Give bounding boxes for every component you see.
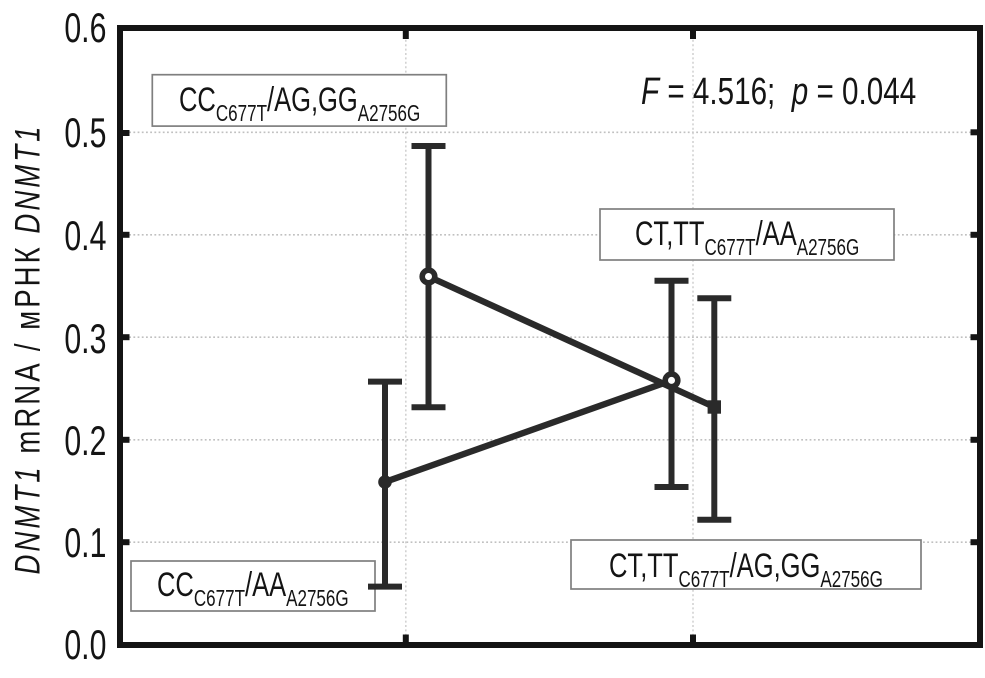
error bar series AA point CC (vertical) — [382, 382, 388, 587]
error bar cap top CT,TT/AG,GG — [697, 295, 731, 301]
marker filled square CT,TT/AG,GG — [708, 400, 721, 413]
right tick 0.2 — [971, 437, 978, 443]
bottom tick category 1 — [403, 635, 409, 643]
label box CC/AA — [131, 561, 375, 611]
right tick 0.3 — [971, 334, 978, 340]
label text CT,TT/AG,GG — [609, 549, 979, 584]
error bar cap top CC/AA — [368, 379, 402, 385]
y tick label 0.6 — [64, 7, 106, 49]
vertical gridline category 2 — [692, 31, 694, 642]
left tick 0.1 — [123, 539, 130, 545]
left tick 0.2 — [123, 437, 130, 443]
marker open circle CT,TT/AA — [665, 374, 678, 387]
error bar cap bottom CT,TT/AA — [655, 484, 689, 490]
marker filled circle CC/AA — [378, 475, 392, 489]
left tick 0.3 — [123, 334, 130, 340]
error bar cap top CC/AG,GG — [412, 143, 446, 149]
horizontal gridline 0.2 — [125, 439, 977, 441]
label text CT,TT/AA — [635, 217, 938, 252]
right tick 0.4 — [971, 232, 978, 238]
bottom tick category 2 — [690, 635, 696, 643]
y axis title DNMT1 mRNA / mRNK DNMT1 — [27, 348, 29, 350]
error bar series AA point CT,TT (vertical) — [669, 281, 675, 487]
y tick label 0.2 — [64, 420, 106, 462]
error bar cap top CT,TT/AA — [655, 278, 689, 284]
error bar series AG,GG point CT,TT (vertical) — [711, 298, 717, 519]
horizontal gridline 0.5 — [125, 131, 977, 133]
label text CC/AA — [157, 568, 416, 603]
label text CC/AG,GG — [179, 83, 505, 118]
horizontal gridline 0.4 — [125, 234, 977, 236]
top tick category 1 — [403, 31, 409, 39]
error bar series AG,GG point CC (vertical) — [426, 146, 432, 407]
left tick 0.4 — [123, 232, 130, 238]
label box CC/AG,GG — [152, 75, 446, 126]
y tick label 0.0 — [64, 624, 106, 666]
y tick label 0.1 — [64, 522, 106, 564]
series line AG,GG descending — [429, 277, 715, 408]
y tick label 0.3 — [64, 318, 106, 360]
top tick category 2 — [690, 31, 696, 39]
right tick 0.5 — [971, 129, 978, 135]
label box CT,TT/AA — [600, 209, 894, 260]
series line AA ascending — [385, 380, 672, 482]
right tick 0.1 — [971, 539, 978, 545]
left tick 0.5 — [123, 130, 130, 136]
label box CT,TT/AG,GG — [571, 540, 921, 589]
y tick label 0.4 — [64, 215, 106, 257]
error bar cap bottom CC/AA — [368, 584, 402, 590]
error bar cap bottom CT,TT/AG,GG — [697, 517, 731, 523]
vertical gridline category 1 — [405, 31, 407, 642]
marker open circle CC/AG,GG — [422, 270, 435, 283]
y tick label 0.5 — [64, 112, 106, 154]
horizontal gridline 0.1 — [125, 541, 977, 543]
error bar cap bottom CC/AG,GG — [412, 404, 446, 410]
plot frame — [120, 28, 980, 645]
annotation F = 4.516; p = 0.044 — [641, 73, 916, 111]
horizontal gridline 0.3 — [125, 336, 977, 338]
